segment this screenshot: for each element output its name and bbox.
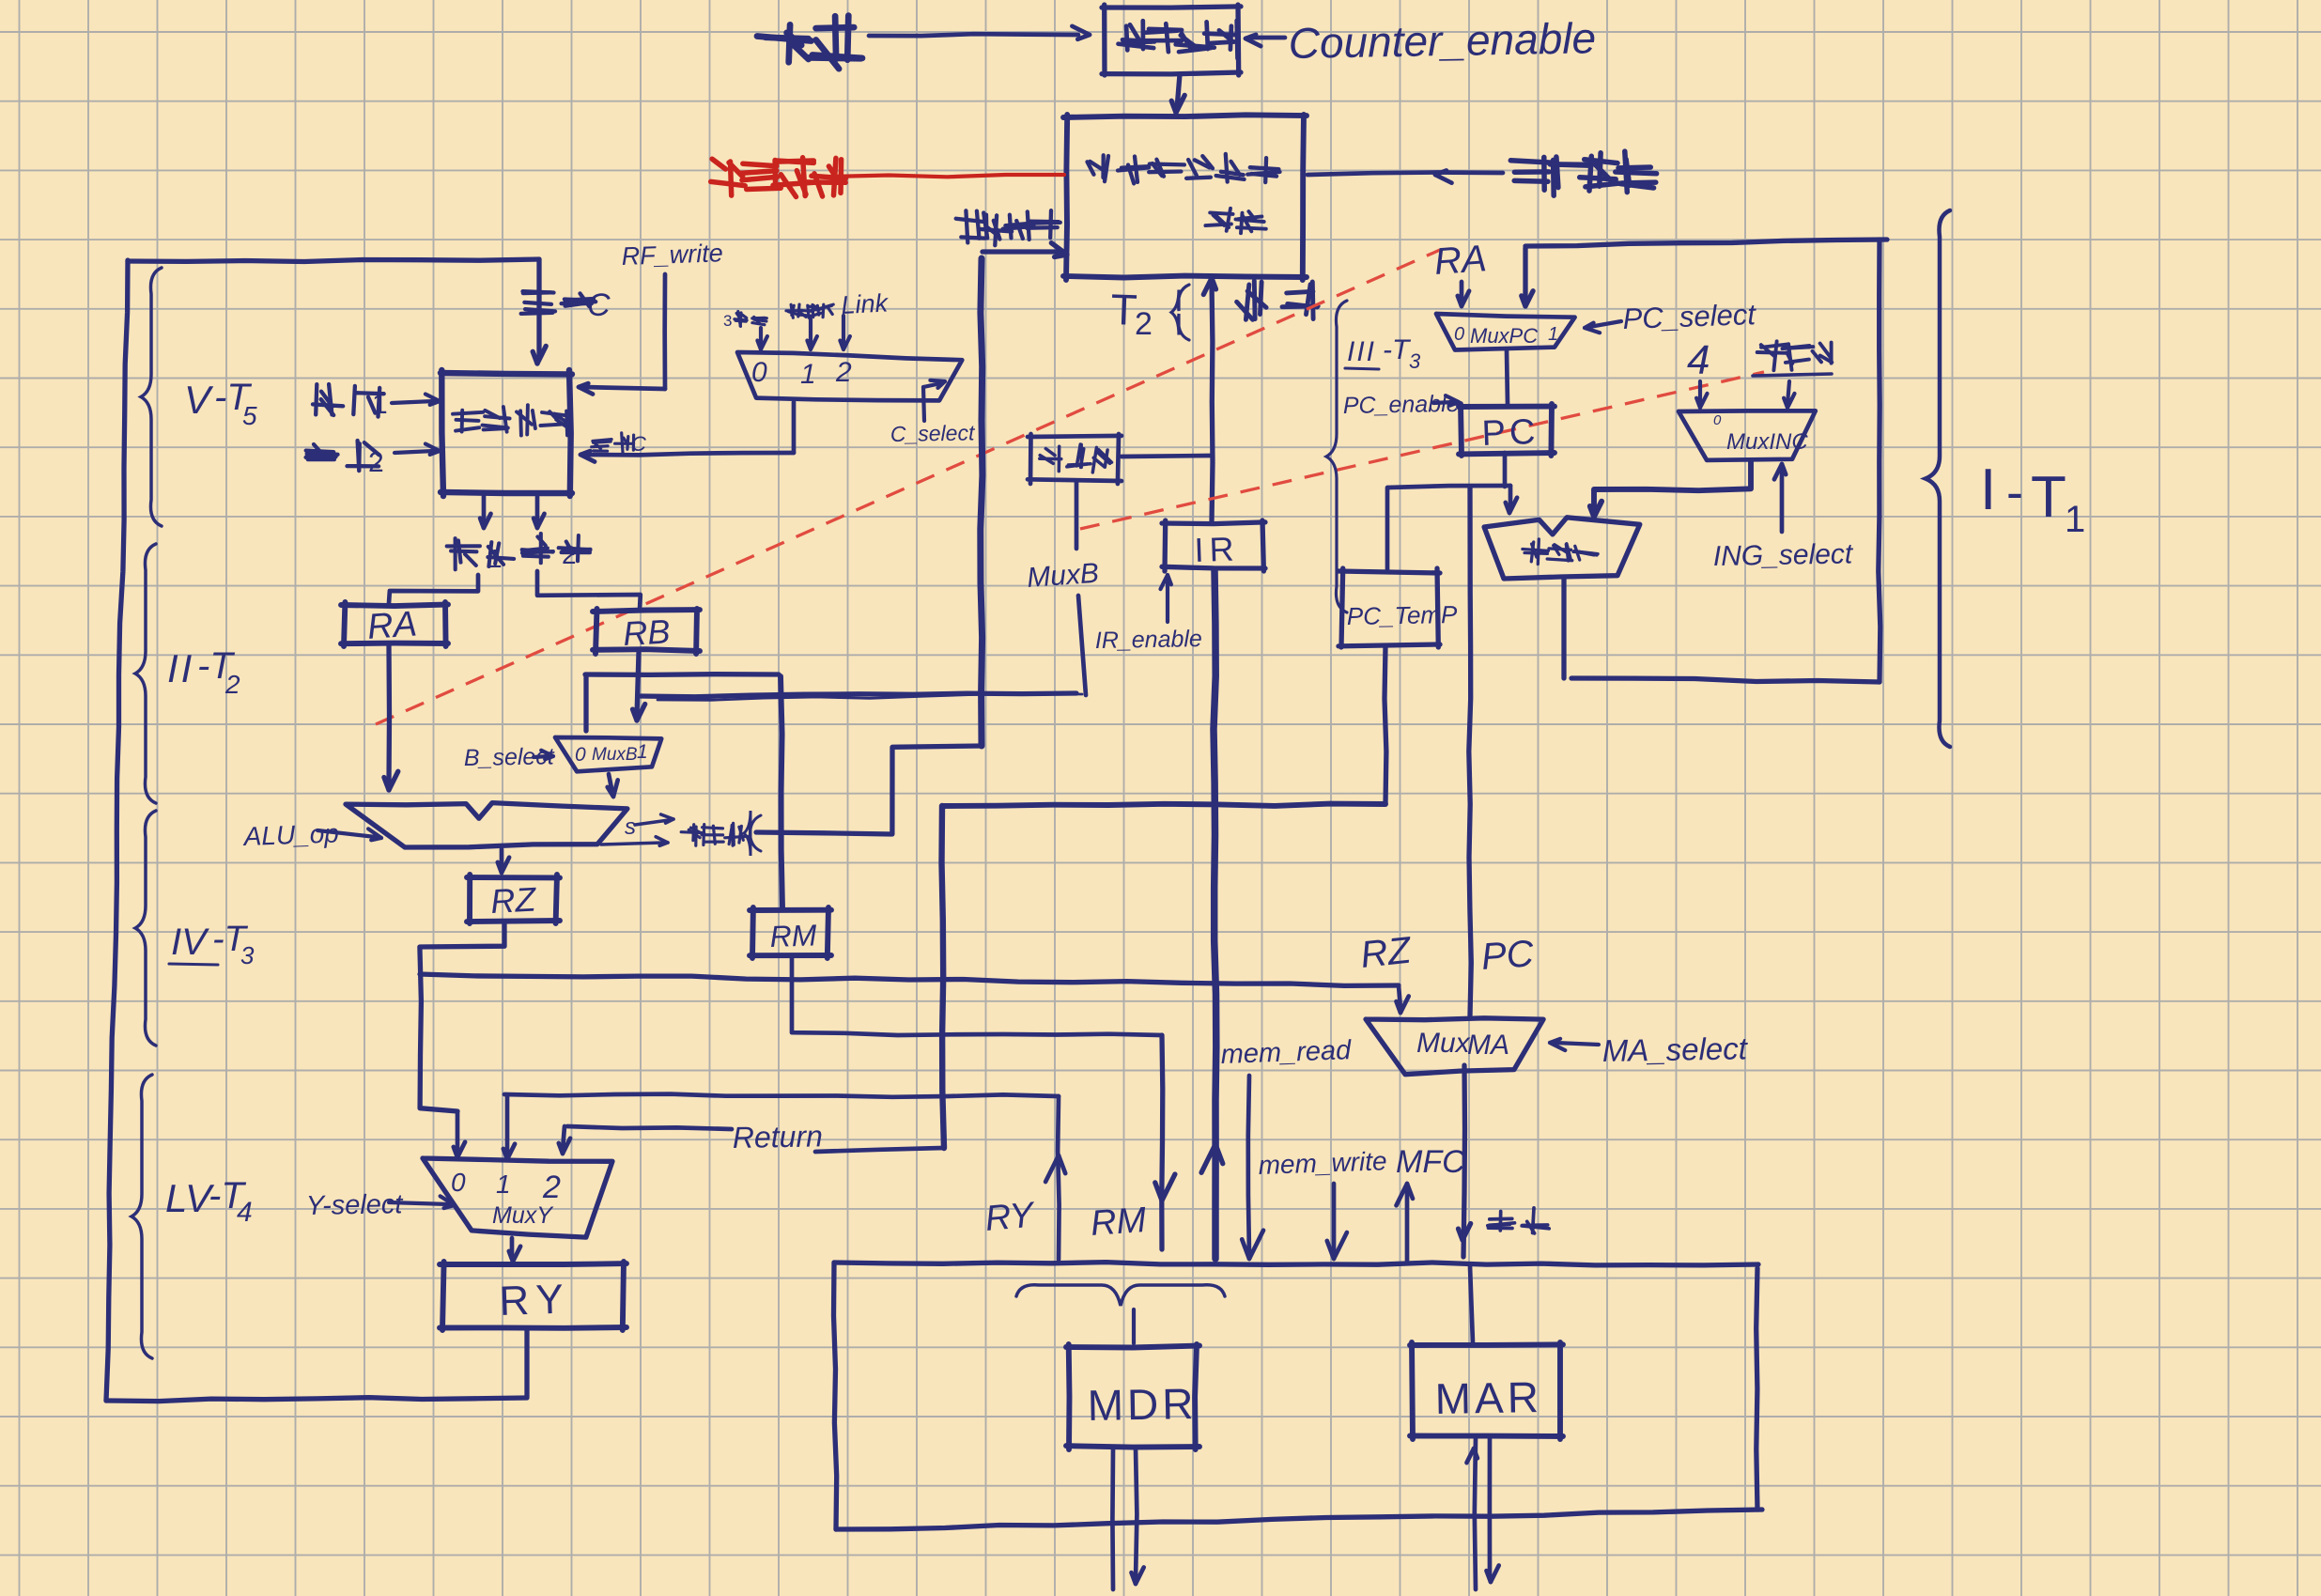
label mux PC 1	[1548, 324, 1558, 345]
wire 地址1 into register file	[392, 395, 440, 405]
brace LV-T4	[132, 1075, 152, 1358]
label MAR text	[1434, 1372, 1542, 1423]
dashed red line PC/immediate	[1080, 372, 1764, 529]
label RA text	[366, 604, 419, 647]
wire register file output 2 arrow	[534, 497, 544, 528]
label MA_select	[1601, 1030, 1749, 1068]
label IR_enable	[1095, 626, 1202, 654]
label 时钟 (clock)	[757, 16, 862, 70]
register file box 寄存器文件	[441, 370, 572, 496]
label PC_select	[1622, 298, 1757, 335]
wire external signal to control generator	[1307, 171, 1503, 183]
label IR text	[1194, 529, 1240, 569]
brace over MDR	[1016, 1285, 1225, 1306]
svg-text:ALU_op: ALU_op	[241, 818, 339, 851]
wire condition signal into control generator	[983, 243, 1067, 257]
label mux C input 1	[800, 359, 816, 390]
wire MFC up from memory	[1397, 1184, 1414, 1261]
dashed red line RA	[376, 250, 1440, 724]
label 立即数 upper	[1753, 341, 1832, 376]
label mux B 1	[637, 741, 648, 763]
label mux C input 2	[835, 357, 852, 388]
wire brace stem to MDR	[1132, 1309, 1136, 1343]
wire return vertical	[942, 806, 945, 1148]
svg-text:2: 2	[562, 540, 577, 569]
wire RY output down	[524, 1329, 529, 1397]
svg-text:PC_TemP: PC_TemP	[1347, 600, 1459, 630]
wire MDR bottom line2	[1132, 1449, 1144, 1584]
wire INC_select into MuxINC	[1774, 464, 1786, 532]
svg-text:RB: RB	[622, 612, 671, 653]
label 控制信号发生器 text row2	[1205, 209, 1265, 233]
label 地址 near memory	[1488, 1208, 1549, 1233]
wire PC_TEMP horizontal y858	[942, 804, 1385, 806]
wire ALU_op into alu	[317, 829, 381, 840]
svg-text:MuxINC: MuxINC	[1726, 429, 1808, 455]
svg-text:Mux: Mux	[1416, 1028, 1471, 1059]
wire RZ rail to MuxMA	[420, 974, 1399, 985]
wire PC_TEMP output down	[1385, 646, 1386, 804]
wire RY feedback top horizontal	[128, 259, 539, 262]
wire alu S arrow lower	[601, 837, 668, 846]
brace IV-T3	[135, 811, 156, 1046]
svg-text:ING_select: ING_select	[1713, 538, 1855, 572]
label mux Y text	[492, 1202, 554, 1229]
svg-text:0: 0	[751, 357, 767, 388]
register MAR box	[1410, 1342, 1563, 1439]
label mem_read	[1220, 1035, 1353, 1070]
label MFC	[1396, 1144, 1465, 1180]
label 立即数 text	[1040, 444, 1112, 473]
label C_select	[890, 420, 977, 446]
label RZ text	[489, 879, 537, 921]
svg-text:1: 1	[1548, 324, 1558, 345]
brace after 条件码	[744, 811, 761, 856]
svg-text:II: II	[167, 646, 194, 690]
svg-text:1: 1	[496, 1170, 511, 1199]
wire condition signal vertical	[981, 258, 983, 746]
register RZ box	[467, 875, 560, 923]
wire PC bottom junction	[1388, 453, 1510, 488]
label 条件码	[681, 823, 748, 845]
memory box	[834, 1263, 1763, 1529]
svg-text:MFC: MFC	[1396, 1144, 1465, 1180]
svg-text:1: 1	[637, 741, 648, 763]
wire 地址2 into register file	[395, 444, 440, 455]
wire immediate down	[1075, 481, 1079, 549]
svg-text:C_select: C_select	[890, 420, 977, 446]
label 地址2	[306, 441, 384, 478]
wire IR output down to memory	[1214, 570, 1216, 1259]
svg-text:IR: IR	[1194, 529, 1240, 569]
wire RA into MuxPC	[1458, 282, 1469, 306]
svg-text:MuxB: MuxB	[1026, 558, 1100, 594]
svg-text:RZ: RZ	[489, 879, 537, 921]
label B_select	[464, 743, 555, 771]
wire RF_write into register file	[579, 274, 665, 395]
wire adder output down	[1561, 579, 1566, 678]
label 控制信号发生器 text row1	[1088, 154, 1280, 183]
wire PC_enable into PC	[1433, 395, 1459, 406]
svg-text:MDR: MDR	[1087, 1379, 1198, 1430]
svg-text:RM: RM	[769, 918, 817, 953]
svg-text:-: -	[2006, 464, 2023, 520]
brace after T2	[1171, 285, 1189, 340]
label LV-T4	[165, 1175, 253, 1228]
label mux B 0	[575, 744, 586, 766]
mux PC trapezoid	[1436, 314, 1575, 350]
svg-text:1: 1	[800, 359, 816, 390]
svg-text:RF_write: RF_write	[621, 239, 723, 271]
svg-text:RY: RY	[983, 1195, 1037, 1239]
svg-text:1: 1	[487, 544, 503, 573]
svg-text:5: 5	[242, 401, 257, 430]
svg-text:s: s	[625, 814, 636, 840]
svg-text:3: 3	[1409, 349, 1421, 373]
label PC text	[1481, 412, 1540, 454]
label MDR text	[1087, 1379, 1198, 1430]
label mux Y 0	[451, 1168, 466, 1197]
label alu S output	[625, 814, 636, 840]
immediate box 立即数	[1028, 434, 1122, 484]
wire MAR bottom line2	[1487, 1438, 1499, 1582]
label 数据1	[447, 538, 514, 573]
wire PC_select into MuxPC	[1585, 321, 1621, 333]
wire return arrow into MuxY	[559, 1126, 570, 1154]
svg-text:I: I	[1980, 457, 1998, 522]
svg-text:0: 0	[1454, 324, 1464, 345]
wire loop top	[1525, 240, 1887, 246]
wire junction to PC_TEMP	[1385, 488, 1390, 569]
svg-text:Return: Return	[732, 1119, 823, 1154]
svg-text:PC: PC	[1480, 933, 1537, 978]
svg-text:mem_read: mem_read	[1220, 1035, 1353, 1070]
label RY text	[499, 1276, 572, 1325]
label 数据C	[521, 287, 611, 323]
label RM text	[769, 918, 817, 953]
label PC near MuxMA	[1480, 933, 1537, 978]
wire RZ output elbow	[420, 922, 504, 1111]
label 外部信号	[1510, 151, 1656, 195]
wire Link into mux C	[840, 316, 850, 349]
wire MuxMA output down 地址	[1459, 1065, 1471, 1257]
label 寄存器文件 text	[453, 405, 569, 435]
svg-text:4: 4	[1687, 337, 1710, 383]
wire alu S arrow upper	[635, 814, 673, 825]
wire rail down to RM	[781, 676, 782, 907]
wire IR_enable into IR	[1161, 575, 1171, 622]
svg-text:III: III	[1347, 336, 1376, 367]
svg-text:RZ: RZ	[1358, 929, 1414, 975]
wire B_select into mux B	[534, 751, 553, 760]
wire loop bottom	[1571, 678, 1880, 682]
wire data2 to RB	[537, 571, 641, 610]
wire into MuxY input0	[454, 1111, 465, 1157]
label I-T1	[1980, 457, 2085, 540]
wire counter to control generator	[1171, 74, 1184, 113]
wire RY feedback bottom	[106, 1398, 527, 1402]
label 控制信号 (red)	[711, 158, 846, 197]
counter box 计数器	[1102, 5, 1241, 75]
svg-text:1: 1	[2065, 499, 2085, 540]
svg-text:2: 2	[224, 670, 240, 699]
wire PC to MuxMA vertical	[1469, 488, 1472, 1015]
register MDR box	[1066, 1344, 1199, 1449]
label mux Y 1	[496, 1170, 511, 1199]
mux INC trapezoid	[1679, 411, 1816, 460]
label 其他地址	[786, 304, 833, 318]
svg-text:IR_enable: IR_enable	[1095, 626, 1202, 654]
wire RA output to ALU	[384, 645, 398, 790]
label PC_TEMP text	[1347, 600, 1459, 630]
label IV-T3	[169, 920, 255, 969]
mux C trapezoid	[737, 352, 962, 400]
label RA upper right	[1433, 238, 1489, 283]
svg-text:-T: -T	[1383, 334, 1412, 365]
svg-text:MuxB: MuxB	[592, 745, 638, 765]
svg-text:T: T	[2031, 465, 2066, 530]
label II-T2	[167, 645, 240, 699]
wire mux C output to 地址C	[580, 402, 794, 462]
wire loop into MuxPC	[1522, 248, 1533, 306]
label T2	[1110, 285, 1153, 342]
svg-text:2: 2	[368, 447, 384, 478]
label RY near memory	[983, 1195, 1037, 1239]
label mux INC text	[1713, 412, 1808, 455]
label RF_write	[621, 239, 723, 271]
svg-text:mem_write: mem_write	[1258, 1146, 1387, 1180]
wire data1 to RA	[389, 575, 478, 603]
register RM box	[750, 907, 831, 958]
label 译码	[1237, 281, 1319, 319]
wire RM down into memory	[1155, 1035, 1175, 1249]
wire rail to MuxB input0	[583, 674, 588, 731]
svg-text:PC: PC	[1481, 412, 1540, 454]
svg-text:MuxPC: MuxPC	[1470, 324, 1538, 348]
wire RB output down	[633, 653, 645, 721]
wire control signals out (red)	[830, 175, 1064, 177]
svg-text:1: 1	[372, 389, 388, 420]
register RB box	[593, 609, 700, 654]
mux Y trapezoid	[423, 1158, 612, 1237]
wire 其他地址 into mux C	[807, 319, 817, 349]
svg-text:Counter_enable: Counter_enable	[1288, 13, 1596, 68]
wire IR to control generator (decode)	[1203, 278, 1215, 522]
svg-text:MuxY: MuxY	[492, 1202, 554, 1229]
wire immediate rail y741	[641, 693, 1082, 700]
svg-text:MA: MA	[1467, 1030, 1509, 1061]
svg-text:3: 3	[240, 941, 255, 969]
label 地址1	[313, 384, 388, 420]
label mux MA text	[1416, 1028, 1509, 1061]
label mem_write	[1258, 1146, 1387, 1180]
label 数据2	[522, 534, 591, 569]
brace I-T1	[1926, 210, 1950, 747]
wire return to text	[815, 1148, 943, 1152]
wire 立即数 into MuxINC	[1784, 381, 1794, 408]
svg-text:PC_enable: PC_enable	[1343, 391, 1460, 419]
label INC_select	[1713, 538, 1855, 572]
label Return	[732, 1119, 823, 1154]
wire mux B output to ALU	[608, 774, 618, 797]
label Link	[841, 288, 890, 319]
brace II-T2	[135, 544, 156, 803]
label RB text	[622, 612, 671, 653]
label mux C input 0	[751, 357, 767, 388]
wire MuxPC output to PC	[1507, 350, 1508, 404]
svg-text:2: 2	[835, 357, 852, 388]
arrow up on IR memory line	[1201, 1144, 1223, 1172]
wire Y_select into MuxY	[389, 1196, 455, 1208]
wire Counter_enable to counter	[1246, 35, 1285, 46]
wire mem_read into memory	[1242, 1076, 1263, 1259]
brace III-T3 section	[1326, 301, 1347, 612]
wire return text to MuxY	[567, 1126, 732, 1129]
wire condition codes staircase	[756, 746, 982, 834]
adder trapezoid 加法器	[1484, 518, 1640, 579]
wire mem_write into memory	[1327, 1184, 1347, 1259]
wire C_select into mux C	[923, 380, 945, 421]
label RM near memory	[1090, 1201, 1148, 1244]
wire RY feedback left tall	[106, 260, 128, 1401]
wire MuxY output to RY	[509, 1238, 520, 1262]
wire MuxINC output to adder	[1590, 460, 1751, 517]
label mux PC 0	[1454, 324, 1464, 345]
wire 4 into MuxINC	[1696, 381, 1707, 408]
label PC_enable	[1343, 391, 1460, 419]
wire address to MAR	[1470, 1266, 1473, 1343]
wire 3地址 into mux C	[757, 328, 767, 349]
wire MuxB lower down	[1078, 596, 1086, 695]
svg-text:RA: RA	[366, 604, 419, 647]
svg-text:MA_select: MA_select	[1601, 1030, 1749, 1068]
label 地址C	[592, 432, 646, 456]
mux B trapezoid	[555, 737, 661, 771]
wire RM output elbow	[792, 957, 1162, 1035]
label V-T5	[184, 377, 257, 430]
register IR box	[1162, 520, 1265, 571]
svg-text:0: 0	[451, 1168, 466, 1197]
label RZ near MuxMA	[1358, 929, 1414, 975]
wire register file output 1 arrow	[480, 496, 490, 528]
svg-text:0: 0	[1713, 412, 1722, 428]
wire memory-data rail y1165	[504, 1094, 1059, 1097]
label MuxB lower	[1026, 558, 1100, 594]
svg-text:MAR: MAR	[1434, 1372, 1542, 1423]
svg-text:RM: RM	[1090, 1201, 1148, 1244]
label mux PC text	[1470, 324, 1538, 348]
brace V-T5	[141, 268, 162, 526]
svg-text:C: C	[631, 432, 646, 456]
mux MA trapezoid	[1366, 1018, 1543, 1075]
register RA box	[341, 602, 448, 646]
svg-text:Y-select: Y-select	[306, 1189, 405, 1221]
wire MA_select into MuxMA	[1550, 1039, 1599, 1050]
wire RY memory vertical	[1045, 1096, 1065, 1260]
label mux B text	[592, 745, 638, 765]
wire MAR bottom line1	[1467, 1438, 1478, 1589]
wire RZ rail arrow into MuxMA	[1397, 985, 1409, 1013]
wire loop right vertical	[1879, 240, 1880, 682]
wire alu output to RZ	[498, 849, 509, 873]
svg-text:RY: RY	[499, 1276, 572, 1325]
label 计数器 text	[1119, 21, 1239, 58]
wire clock to counter	[869, 26, 1090, 39]
svg-text:2: 2	[1135, 306, 1153, 342]
label 3地址	[723, 312, 766, 331]
wire immediate to IR line	[1122, 456, 1210, 457]
label Y_select	[306, 1189, 405, 1221]
svg-text:2: 2	[542, 1170, 561, 1205]
label mux Y 2	[542, 1170, 561, 1205]
svg-text:V: V	[184, 378, 214, 422]
control signal generator box 控制信号发生器	[1063, 115, 1307, 280]
wire PC to adder	[1506, 486, 1517, 513]
alu trapezoid	[346, 803, 627, 847]
register PC_TEMP box	[1338, 568, 1440, 647]
svg-text:Link: Link	[841, 288, 890, 319]
register PC box	[1459, 404, 1555, 456]
label III-T3	[1345, 334, 1421, 373]
svg-text:PC_select: PC_select	[1622, 298, 1757, 335]
register RY box	[440, 1262, 627, 1330]
wire RB rail y718	[585, 672, 779, 677]
label 条件信号	[956, 210, 1060, 245]
wire data C down into register file	[533, 259, 546, 364]
label Counter_enable	[1288, 13, 1596, 68]
label 加法器 text	[1523, 539, 1598, 565]
label 4 input	[1687, 337, 1710, 383]
wire MDR bottom line1	[1110, 1449, 1115, 1589]
wire rail into MuxY input1	[503, 1096, 515, 1159]
svg-text:C: C	[587, 287, 611, 323]
label ALU_op	[241, 818, 339, 851]
svg-text:IV: IV	[171, 922, 209, 963]
svg-text:RA: RA	[1433, 238, 1489, 283]
svg-text:3: 3	[723, 312, 732, 330]
svg-text:0: 0	[575, 744, 586, 766]
svg-text:4: 4	[237, 1197, 253, 1228]
